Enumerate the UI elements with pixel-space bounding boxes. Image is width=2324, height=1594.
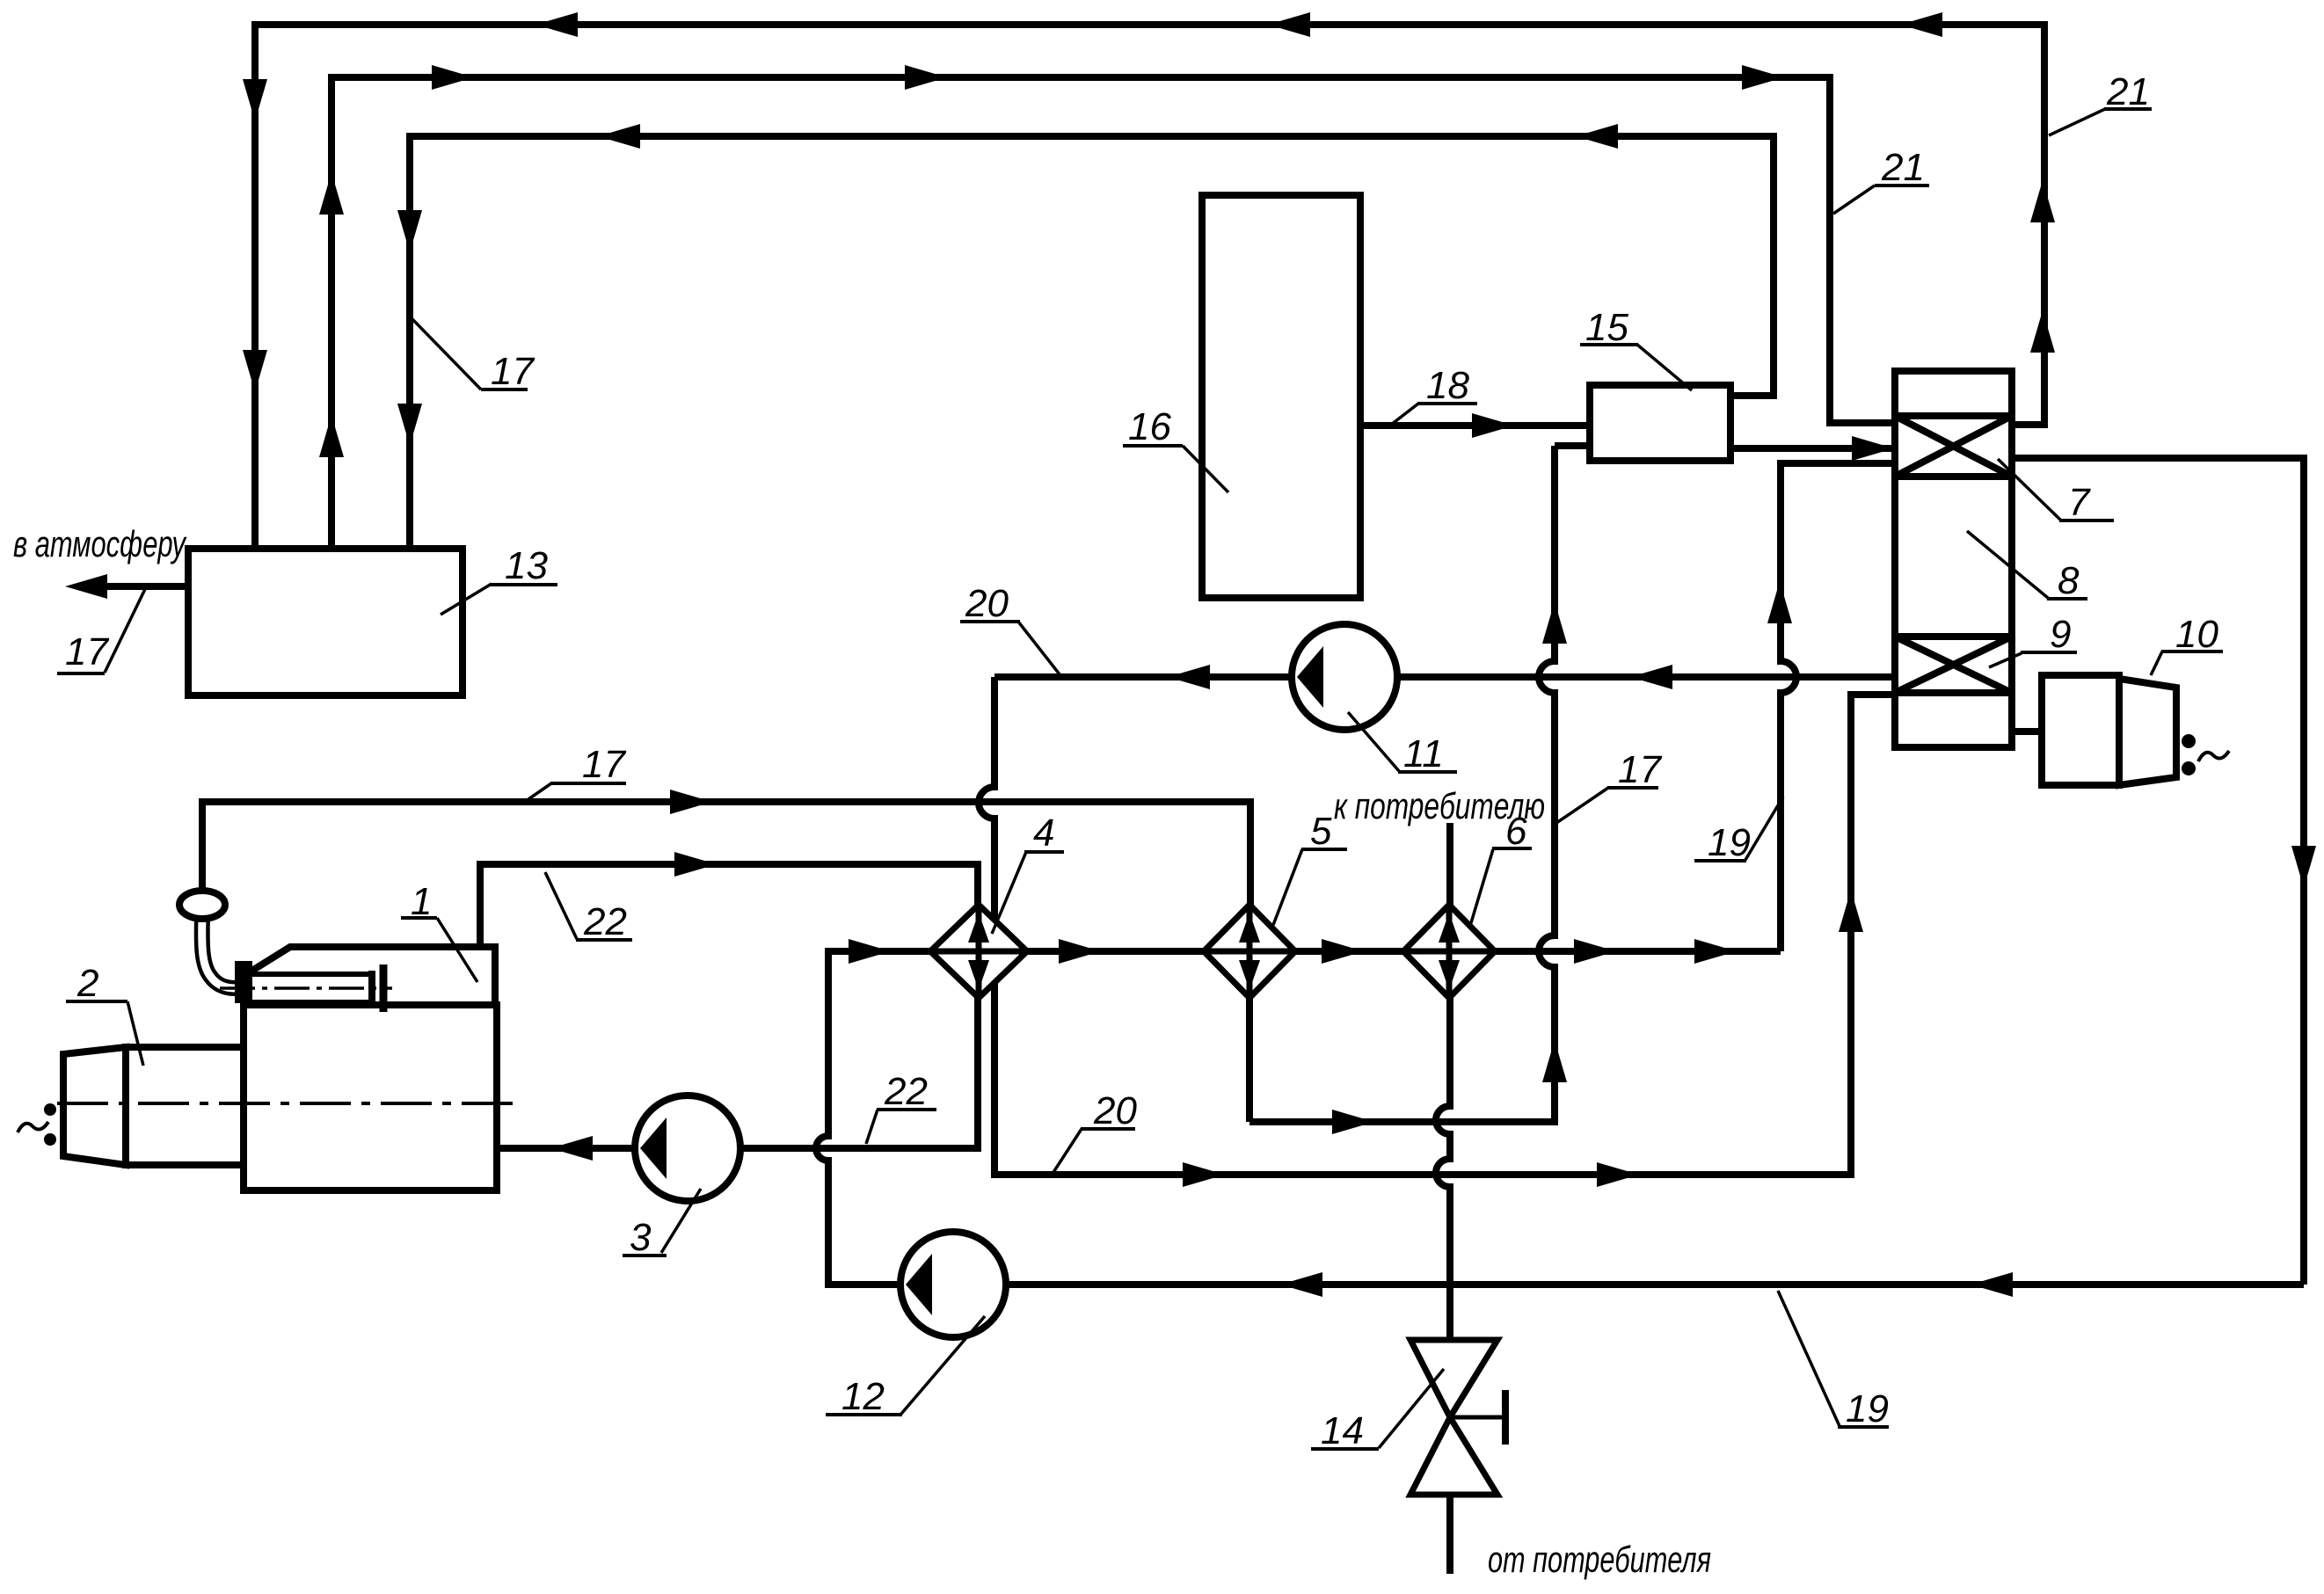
leader label 8 bbox=[1967, 531, 2048, 598]
wire 19 riser (diamond6 to column) with hop bbox=[1781, 463, 1895, 951]
svg-text:20: 20 bbox=[1093, 1089, 1137, 1132]
leader label 17 mid bbox=[1556, 788, 1608, 823]
svg-text:21: 21 bbox=[1881, 146, 1925, 189]
leader label 12 bbox=[901, 1316, 985, 1414]
boiler 1 body bbox=[244, 1005, 497, 1190]
svg-text:в атмосферу: в атмосферу bbox=[13, 523, 187, 564]
arrow to atmosphere bbox=[65, 574, 107, 599]
water gauge tube bbox=[252, 972, 369, 977]
wire box13 exit to atmosphere bbox=[79, 583, 188, 590]
leader label 21 left bbox=[1833, 186, 1875, 214]
svg-text:21: 21 bbox=[2106, 70, 2150, 113]
arrows on wire 21 upper bbox=[535, 12, 578, 37]
arrow on wire 18 bbox=[1472, 413, 1514, 438]
arrows main line bbox=[849, 939, 891, 964]
arrows on wire 20 bottom bbox=[1183, 1162, 1225, 1187]
arrow wire 22 bbox=[674, 852, 717, 877]
leader label 7 bbox=[1998, 459, 2060, 520]
svg-text:7: 7 bbox=[2068, 481, 2091, 524]
svg-text:4: 4 bbox=[1033, 812, 1054, 855]
svg-text:10: 10 bbox=[2175, 613, 2218, 656]
wire 20 down leg with hop over wire 17 bbox=[979, 677, 1895, 1175]
leader label 1 bbox=[437, 918, 477, 982]
svg-text:14: 14 bbox=[1321, 1409, 1364, 1452]
burner 2 tube bbox=[126, 1047, 244, 1165]
svg-text:к потребителю: к потребителю bbox=[1334, 785, 1545, 826]
wire 19 right loop (column to pump12 line) bbox=[2012, 458, 2304, 1285]
svg-text:20: 20 bbox=[965, 582, 1009, 625]
column box 8 bbox=[1895, 477, 2012, 637]
arrows on wire 17 riser bbox=[1542, 601, 1567, 644]
electric drive 10 bbox=[2042, 675, 2176, 785]
valve 14 handle bbox=[1450, 1416, 1505, 1420]
leader label 19 mid bbox=[1745, 797, 1783, 860]
svg-text:15: 15 bbox=[1585, 306, 1628, 349]
heat exchanger 9 bbox=[1895, 637, 2012, 693]
arrows on wire 17 flue bbox=[598, 124, 640, 149]
arrows on pump11 line bbox=[1168, 665, 1210, 689]
leader label 19 bottom bbox=[1778, 1291, 1840, 1426]
wire box15 to column bbox=[1730, 445, 1895, 452]
leader label 20 bottom bbox=[1051, 1129, 1082, 1176]
svg-text:19: 19 bbox=[1846, 1387, 1889, 1430]
column bottom box bbox=[1895, 693, 2012, 747]
drive 10 mains squiggle bbox=[2198, 751, 2229, 761]
heat exchanger 6 bbox=[1403, 905, 1495, 998]
svg-text:11: 11 bbox=[1403, 732, 1444, 775]
drive 10 terminals bbox=[2182, 734, 2196, 748]
arrow wire 17 exhaust bbox=[670, 790, 712, 814]
svg-text:8: 8 bbox=[2058, 559, 2080, 602]
leader label 22 bottom bbox=[866, 1110, 878, 1144]
boiler axis centerline bbox=[57, 1102, 514, 1105]
leader label 17 top-left bbox=[412, 318, 481, 389]
wire pump12 to boiler return bbox=[816, 951, 930, 1285]
leader label 5 bbox=[1273, 849, 1302, 925]
wire 19 bottom line (to pump 12) bbox=[1006, 1281, 2304, 1288]
column top box bbox=[1895, 371, 2012, 416]
leader label 18 bbox=[1391, 404, 1418, 425]
wire 22 boiler supply (boiler top to diamond4) bbox=[480, 864, 978, 949]
svg-text:22: 22 bbox=[583, 900, 627, 943]
flue box 13 bbox=[188, 549, 463, 695]
wire main heat line through exchangers bbox=[930, 948, 1781, 955]
pump 11 bbox=[1292, 624, 1397, 730]
burner 2 cone bbox=[63, 1047, 126, 1165]
svg-text:12: 12 bbox=[841, 1375, 885, 1418]
leader label 17 atmosphere bbox=[105, 589, 145, 673]
leader label 21 right bbox=[2049, 109, 2105, 135]
leader label 17 left bbox=[528, 783, 551, 799]
leader label 16 bbox=[1183, 446, 1228, 492]
water gauge elbow pipe bbox=[202, 918, 236, 988]
svg-text:17: 17 bbox=[65, 630, 109, 673]
wire 21 second flue line (box13 to column) bbox=[331, 77, 1895, 549]
leader label 13 bbox=[441, 584, 492, 615]
svg-text:16: 16 bbox=[1128, 405, 1171, 448]
wire 17 exhaust (boiler to diamond5) bbox=[202, 802, 1250, 905]
svg-text:1: 1 bbox=[411, 880, 432, 923]
leader label 15 bbox=[1637, 345, 1692, 390]
wire column to device10 bbox=[2012, 728, 2042, 735]
svg-text:от потребителя: от потребителя bbox=[1488, 1539, 1711, 1580]
wire 20 pump11 line (column to corner) bbox=[994, 673, 1895, 681]
wire diamond5 bottom to riser bbox=[1246, 998, 1253, 1122]
arrow box15 to column bbox=[1852, 436, 1894, 461]
arrows on wire 21 second bbox=[319, 172, 344, 215]
leader label 2 bbox=[127, 1001, 143, 1066]
arrow wire 22 return into boiler bbox=[550, 1136, 593, 1161]
svg-text:13: 13 bbox=[505, 544, 548, 587]
svg-text:2: 2 bbox=[76, 962, 98, 1005]
wire 17 riser (diamond5 loop to box15) with hops bbox=[1249, 446, 1590, 1122]
pump 3 bbox=[635, 1095, 740, 1201]
box 15 bbox=[1590, 385, 1730, 461]
leader label 6 bbox=[1470, 849, 1493, 926]
valve 14 bbox=[1410, 1340, 1497, 1495]
heat exchanger 5 bbox=[1204, 905, 1295, 998]
svg-text:17: 17 bbox=[582, 743, 626, 786]
svg-text:22: 22 bbox=[884, 1070, 928, 1113]
arrows on wire 19 bbox=[2291, 846, 2316, 888]
svg-text:5: 5 bbox=[1310, 810, 1332, 853]
pump 12 bbox=[900, 1232, 1006, 1337]
wire 17 flue line (box15 to box13) bbox=[410, 136, 1774, 549]
wire 18 (box16 to box15) bbox=[1360, 422, 1590, 429]
svg-text:17: 17 bbox=[1618, 748, 1662, 791]
heat exchanger 4 bbox=[930, 905, 1027, 998]
leader label 20 top bbox=[1018, 622, 1060, 674]
burner 2 mains squiggle bbox=[18, 1122, 48, 1132]
leader label 3 bbox=[661, 1189, 701, 1253]
svg-text:19: 19 bbox=[1708, 821, 1751, 864]
leader label 4 bbox=[992, 852, 1026, 934]
wire 22 return (diamond4 to pump3 line) bbox=[497, 998, 978, 1148]
heat exchanger 7 bbox=[1895, 416, 2012, 477]
boiler 1 top drum bbox=[244, 947, 495, 1005]
leader label 9 bbox=[1989, 653, 2022, 667]
svg-text:3: 3 bbox=[630, 1216, 652, 1259]
arrow on wire 19 riser bbox=[1767, 581, 1792, 623]
water gauge ring bbox=[179, 891, 225, 919]
svg-text:9: 9 bbox=[2050, 613, 2071, 656]
burner 2 terminals bbox=[44, 1103, 56, 1116]
leader label 14 bbox=[1379, 1369, 1444, 1448]
leader label 22 top bbox=[545, 872, 577, 939]
svg-text:17: 17 bbox=[491, 350, 535, 393]
accumulator box 16 bbox=[1202, 195, 1360, 598]
water gauge fitting bbox=[235, 961, 252, 1003]
underlines of labels bbox=[481, 388, 528, 391]
water gauge end cap bbox=[368, 971, 375, 1006]
wire consumer line with hops bbox=[1436, 823, 1450, 1574]
wire 21 upper flue line (column to box13) bbox=[255, 25, 2044, 549]
leader label 10 bbox=[2151, 651, 2162, 675]
svg-text:18: 18 bbox=[1426, 364, 1469, 407]
leader label 11 bbox=[1348, 712, 1399, 771]
